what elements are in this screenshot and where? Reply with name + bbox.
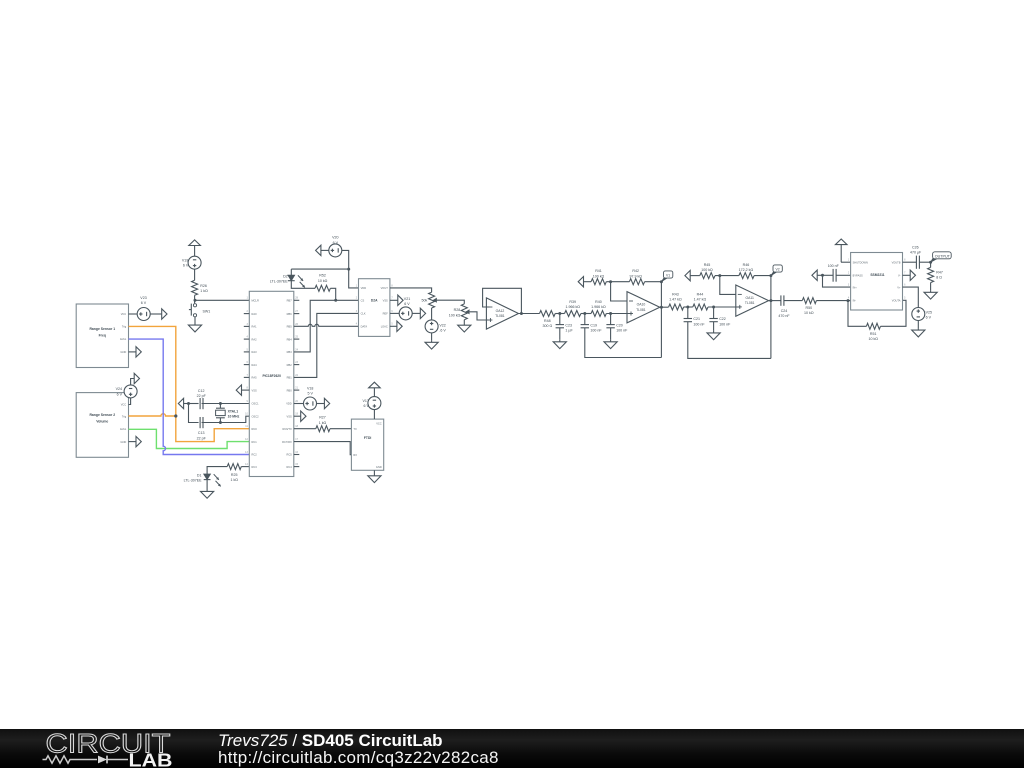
svg-text:GND: GND [120,440,126,444]
logo LAB text [129,751,173,771]
svg-text:VOUTB: VOUTB [892,260,901,264]
svg-text:R27: R27 [319,416,326,420]
IC U2 SSM2211 [848,253,906,311]
wire R41 to junction and OA10 minus [606,282,629,301]
wire OA10 output to R43 [660,306,669,308]
voltage source V21 6 V at REF [390,297,412,320]
net flag left of V20 [316,245,329,255]
wire sensor1 VCC to V23 [129,313,138,315]
wire OA12 output to R48 [519,313,540,315]
capacitor C13 22 pF [197,417,207,440]
svg-text:8 Ω: 8 Ω [936,276,942,280]
svg-text:100 kΩ: 100 kΩ [449,313,461,317]
wire V20 to D2A VDD [342,250,359,288]
wire C26 to output node [919,261,931,263]
svg-text:R48: R48 [544,319,551,323]
node E [712,306,715,309]
ground below C20 [604,339,617,348]
node trigger junction [174,414,177,417]
svg-text:VCC: VCC [121,403,127,407]
svg-text:V2: V2 [776,267,780,271]
op-amp OA12 TL081 [486,298,518,329]
wire R52 to CS line [330,288,335,300]
svg-text:10 kΩ: 10 kΩ [804,311,814,315]
wire V+ to V25 [903,287,919,308]
svg-text:RB5: RB5 [287,325,293,329]
node OSC1 gnd junction [187,402,190,405]
svg-text:100 nF: 100 nF [693,322,705,326]
voltage source V24 6 V [116,385,138,398]
node R45 R46 junction [718,274,721,277]
wire pot bottom to V22 [431,308,433,320]
voltage source V23 6 V [137,296,150,321]
svg-text:REF: REF [383,312,389,316]
svg-text:RX: RX [353,453,357,457]
svg-text:VOUTA: VOUTA [892,299,901,303]
resistor R42 97.9 k [629,269,644,285]
svg-text:R46: R46 [743,263,750,267]
wire OA11 output to C24 [769,300,781,302]
wire D2 top line [291,268,348,270]
svg-text:10 kΩ: 10 kΩ [318,279,328,283]
svg-text:V20: V20 [332,236,338,240]
logo CIRCUIT text [46,729,171,759]
svg-text:R51: R51 [870,332,877,336]
svg-text:6 V: 6 V [363,404,369,408]
svg-text:V-: V- [898,274,901,278]
node V20 D2 junction [347,268,350,271]
node R41 R42 junction [609,280,612,283]
capacitor C20 100 nF [606,314,628,340]
net flag sensor1 GND [129,347,142,357]
wire OA10 output vertical [660,282,662,358]
node crystal bottom [219,421,222,424]
footer title text [218,731,443,750]
ground below R28 [458,320,471,332]
net flag right of V21 [412,308,426,318]
net flag BYPASS ground [812,270,823,280]
svg-text:6 V: 6 V [333,241,339,245]
svg-text:R25: R25 [231,473,238,477]
svg-text:6 V: 6 V [926,316,932,320]
resistor R40 1.966 k [591,300,606,317]
wire PIC RC7 to FTDI RX [294,442,352,455]
svg-text:MCLR: MCLR [252,299,259,303]
svg-text:OA10: OA10 [637,303,646,307]
svg-text:VSS: VSS [286,414,291,418]
wire R45 to junction and OA11 minus [715,276,739,295]
wire OA12 feedback [483,288,522,313]
capacitor C26 470 uF [910,245,922,268]
svg-text:C26: C26 [912,245,919,249]
capacitor C22 100 nF [709,307,731,330]
wire BYPASS node to IN+ [823,275,851,287]
op-amp OA10 TL081 [627,292,660,323]
wire D2 to R52 [291,281,315,289]
svg-text:C12: C12 [198,389,205,393]
net flag R41 ground [578,277,591,287]
named flag OUTPUT [931,252,952,262]
svg-text:C24: C24 [781,309,788,313]
footer url text [218,748,499,767]
svg-text:RA3: RA3 [252,350,258,354]
wire R46 to output node [754,275,771,277]
svg-text:TL081: TL081 [495,314,505,318]
resistor R45 100 k [700,263,715,279]
resistor R39 1.966 k [565,300,581,317]
wire V24 bottom to sensor2 VCC [129,398,131,405]
footer bar [0,729,1024,768]
svg-text:RC7/RX: RC7/RX [282,440,292,444]
wire V19 to R26 [194,269,196,280]
svg-text:Trig: Trig [122,324,127,328]
node MCLR junction [194,299,197,302]
capacitor C19 100 nF to feedback [581,314,662,358]
op-amp OA11 TL081 [736,285,769,316]
wire R50 to SSM2211 IN- [816,300,850,302]
svg-text:VOUT: VOUT [381,286,389,290]
node BYPASS junction [821,274,824,277]
svg-text:R44: R44 [697,293,704,297]
ground below R47 [924,283,937,300]
svg-text:V22: V22 [439,323,445,327]
svg-text:V24: V24 [116,387,122,391]
svg-text:Range Sensor 1: Range Sensor 1 [89,327,115,331]
wire R39 to node B [581,313,591,315]
svg-text:SHUTDOWN: SHUTDOWN [853,260,868,264]
svg-text:RB3: RB3 [287,350,293,354]
voltage source V17 6 V [362,397,380,420]
svg-text:TX: TX [353,427,357,431]
wire PIC RC6 to R27 [294,428,316,430]
svg-text:SSM2211: SSM2211 [870,273,884,277]
ground below D1 [201,480,214,499]
svg-text:D1: D1 [197,473,202,477]
net flag right of V18 [316,398,329,408]
wire V23 to flag [150,313,162,315]
resistor R46 172.2 k [739,263,754,279]
svg-text:VSS: VSS [252,388,257,392]
logo resistor diode squiggle [43,756,129,764]
svg-text:5 V: 5 V [307,392,313,396]
svg-text:Volume: Volume [96,420,108,424]
wire R42 to output node [645,281,662,283]
svg-text:RA2: RA2 [252,337,258,341]
net flag sensor2 GND [129,436,142,446]
svg-text:RC5: RC5 [286,453,292,457]
svg-text:V18: V18 [307,386,313,390]
svg-text:1 µF: 1 µF [565,328,573,332]
svg-text:LAB: LAB [129,751,173,769]
svg-text:D2: D2 [283,274,288,278]
net flag PIC VSS right [294,411,306,421]
wire blue sensor1 Echo to PIC RC2 with hop over green [129,339,250,454]
wire R28 wiper to op-amp [470,312,489,320]
svg-text:LTL-307EE: LTL-307EE [270,280,289,284]
svg-text:C21: C21 [693,317,700,321]
svg-text:97.9 kΩ: 97.9 kΩ [629,274,642,278]
wire R40 to node C and op-amp plus [606,313,631,315]
power flag V+ for V19 [189,240,201,257]
svg-text:RC4: RC4 [286,465,292,469]
node V1 junction [660,280,663,283]
node V2 junction [769,274,772,277]
svg-text:.6 V: .6 V [439,329,446,333]
svg-text:RA5: RA5 [252,376,258,380]
wire V24 top to flag [131,379,135,386]
svg-text:10 MHz: 10 MHz [228,415,240,419]
svg-text:D2A: D2A [371,298,378,302]
wire R43 to node D [684,306,693,308]
wire PIC RB1 to D2A CLK [294,313,359,377]
svg-text:TL081: TL081 [636,308,646,312]
svg-text:CLK: CLK [361,312,366,316]
wire OA11 output vertical [770,276,772,359]
svg-text:RC6/TX: RC6/TX [282,427,291,431]
crystal XTAL1 10 MHz [216,404,240,423]
svg-text:Range Sensor 2: Range Sensor 2 [89,413,115,417]
svg-text:Freq: Freq [99,333,106,337]
resistor R44 1.47 k [693,293,708,310]
node D [686,306,689,309]
resistor R48 300 [540,311,556,329]
voltage source V25 6 V [912,308,932,321]
wire SHUTDOWN [841,261,851,263]
svg-text:OA11: OA11 [745,296,754,300]
svg-text:FTDI: FTDI [364,436,371,440]
svg-text:GND: GND [120,350,126,354]
svg-text:V25: V25 [926,310,932,314]
svg-text:1 kΩ: 1 kΩ [230,478,238,482]
svg-text:C13: C13 [198,431,205,435]
power flag above V17 [369,382,381,397]
svg-text:22 pF: 22 pF [197,394,207,398]
svg-text:R47: R47 [936,271,943,275]
resistor R50 10 k [802,298,816,316]
svg-text:6 V: 6 V [117,392,123,396]
resistor R51 10 k feedback [848,300,906,341]
svg-text:RA1: RA1 [252,325,258,329]
svg-text:1 kΩ: 1 kΩ [319,421,327,425]
svg-text:BYPASS: BYPASS [853,274,863,278]
svg-text:RA0: RA0 [252,312,258,316]
wire VOUTB to C26 [903,261,917,263]
svg-text:VCC: VCC [376,421,382,425]
resistor R52 10 k [315,274,330,292]
IC U3 FTDI [351,419,383,470]
svg-text:6 V: 6 V [183,264,189,268]
svg-text:RB2: RB2 [287,363,293,367]
svg-text:1.47 kΩ: 1.47 kΩ [694,298,707,302]
svg-text:RC3: RC3 [252,465,258,469]
resistor R43 1.47 k [669,293,684,310]
net flag V- pin [903,270,916,280]
svg-text:VCC: VCC [121,312,127,316]
ground below C23 [553,339,566,348]
svg-text:LOAC: LOAC [381,325,388,329]
wire C13 to OSC2 [202,416,250,422]
node A [558,312,561,315]
svg-text:V21: V21 [404,297,410,301]
svg-text:IN-: IN- [853,299,857,303]
ground below FTDI [368,470,381,482]
capacitor C12 22 pF [197,389,207,409]
svg-text:172.2 kΩ: 172.2 kΩ [739,268,754,272]
svg-text:CS: CS [361,299,365,303]
net flag at V23 [162,309,167,319]
net flag PIC VSS left [236,385,249,395]
svg-text:R45: R45 [704,263,711,267]
node OA11 output [769,299,772,302]
svg-text:PIC18F2620: PIC18F2620 [262,374,281,378]
resistor R26 1 k [192,280,208,295]
IC D2A DAC [356,279,394,337]
net flag D2A LOAD [390,321,402,331]
svg-text:100 nF: 100 nF [616,328,628,332]
block Range Sensor 2 [76,393,128,458]
svg-text:R39: R39 [569,300,576,304]
wire orange sensor1 Trig to trigger bus [129,326,250,441]
resistor R27 1 k [316,416,330,432]
net flag above V24 [134,373,139,383]
svg-text:R40: R40 [595,300,602,304]
svg-text:RC0: RC0 [252,427,258,431]
svg-text:IN+: IN+ [853,285,858,289]
wire node to PIC MCLR [195,299,249,301]
svg-text:22 pF: 22 pF [197,436,207,440]
wire green sensor2 Echo to PIC RC1 [129,429,250,448]
node OA10 output [660,306,663,309]
pin stubs PIC right unconnected [294,300,300,466]
svg-text:R28: R28 [454,308,461,312]
svg-text:RC1: RC1 [252,440,258,444]
svg-text:V19: V19 [182,259,188,263]
svg-text:C19: C19 [590,323,597,327]
svg-text:DATA: DATA [361,325,368,329]
wire R27 to FTDI TX [330,428,351,430]
wire orange sensor2 Trig with hop over blue [129,414,176,416]
LED D1 LTL-307EE [184,473,221,486]
svg-text:LTL-307EE: LTL-307EE [184,479,203,483]
svg-text:1.966 kΩ: 1.966 kΩ [565,305,580,309]
svg-text:C23: C23 [565,323,572,327]
voltage source V22 6 V [425,320,446,333]
svg-text:1.966 kΩ: 1.966 kΩ [591,305,606,309]
block Range Sensor 1 [76,304,128,368]
potentiometer R28 100 k [449,304,470,320]
svg-text:100 nF: 100 nF [719,322,731,326]
svg-text:50k: 50k [422,299,428,303]
wire PIC RB3 to D2A CS [294,300,359,352]
wire R48 to node A [555,313,564,315]
svg-text:OA12: OA12 [496,309,505,313]
svg-text:6 V: 6 V [141,301,147,305]
svg-text:C20: C20 [616,323,623,327]
node OA12 output [520,312,523,315]
svg-text:SW1: SW1 [203,309,211,313]
svg-text:470 µF: 470 µF [910,251,922,255]
capacitor C21 100 nF to feedback [684,307,771,358]
svg-text:RB4: RB4 [287,337,293,341]
power flag above SHUTDOWN [835,239,847,262]
node B [583,312,586,315]
svg-text:100 kΩ: 100 kΩ [701,268,713,272]
wire R25 to D1 [207,467,227,474]
resistor R47 8 ohm [928,262,943,282]
ground below V22 [425,333,438,349]
capacitor C24 470 nF [778,295,790,318]
svg-text:XTAL1: XTAL1 [228,410,239,414]
node OUTPUT junction [929,261,932,264]
svg-text:VDD: VDD [361,286,367,290]
potentiometer 50k [422,292,437,308]
node crystal top [219,402,222,405]
ground below SW1 [188,317,201,332]
wire R26 to node [194,295,196,303]
svg-text:RA4: RA4 [252,363,258,367]
IC U1 PIC18F2620 [245,291,299,476]
svg-text:Echo: Echo [120,337,126,341]
svg-text:V+: V+ [897,285,901,289]
wire OSC1 line [184,403,250,405]
svg-text:C22: C22 [719,317,726,321]
svg-text:OUTPUT: OUTPUT [935,254,951,258]
voltage source V19 6 V [182,256,201,269]
svg-text:http://circuitlab.com/cq3z22v2: http://circuitlab.com/cq3z22v282ca8 [218,748,499,767]
svg-text:6 V: 6 V [404,302,410,306]
node IN- junction [847,299,850,302]
svg-text:RB7: RB7 [287,299,293,303]
svg-text:R42: R42 [632,269,639,273]
wire PIC RB5 to D2A DATA with hops [294,324,359,326]
switch SW1 [189,304,210,317]
capacitor C23 1 uF [556,314,574,340]
named flag V2 [771,265,782,276]
svg-text:Trig: Trig [122,414,127,418]
svg-text:1.47 kΩ: 1.47 kΩ [669,298,682,302]
ground below C22 [707,330,720,339]
voltage source V18 5 V at PIC VDD [294,386,317,410]
svg-text:V1: V1 [666,273,670,277]
wire R44 to node E and plus input [708,306,740,308]
svg-text:RB1: RB1 [287,376,293,380]
node C [609,312,612,315]
wire gnd vertical to C13 line [189,404,199,423]
wire C24 to R50 [784,300,802,302]
svg-text:OSC1: OSC1 [252,402,260,406]
voltage source V20 6 V [329,236,342,257]
svg-text:R50: R50 [806,306,813,310]
LED D2 LTL-307EE [270,269,305,287]
svg-text:100 nF: 100 nF [828,264,840,268]
wire PIC RC3 to R25 [241,466,249,468]
svg-text:GND: GND [376,465,382,469]
svg-text:100 kΩ: 100 kΩ [593,274,605,278]
resistor R25 1 k [227,464,241,482]
svg-text:10 kΩ: 10 kΩ [868,337,878,341]
net flag R45 ground [685,270,700,280]
pin stubs PIC left unconnected [244,314,250,378]
svg-text:V17: V17 [362,399,368,403]
net flag D2A VSS [390,295,403,305]
node R52 CS junction [334,299,337,302]
svg-text:470 nF: 470 nF [778,314,790,318]
svg-text:RB0: RB0 [287,388,293,392]
svg-text:R43: R43 [672,293,679,297]
svg-text:TL081: TL081 [745,301,755,305]
resistor R41 100 k [591,269,606,285]
svg-text:VSS: VSS [383,299,388,303]
